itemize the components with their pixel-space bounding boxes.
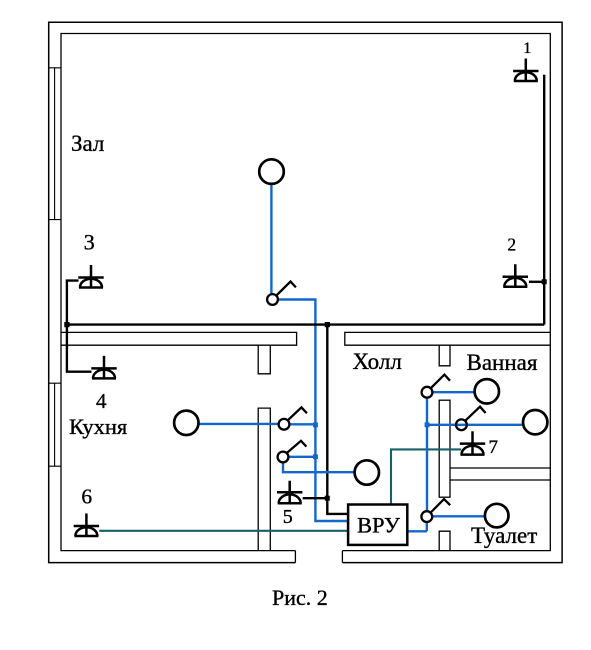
svg-text:Туалет: Туалет	[471, 523, 537, 548]
bathroom/hall wall mid segment	[439, 400, 450, 497]
wire: hall switch to hall lamp	[283, 463, 355, 473]
junction dot F (hall switch riser, blue)	[313, 454, 318, 459]
wire: toilet switch to lamp	[433, 515, 486, 517]
junction dot C (socket5)	[325, 496, 330, 501]
wire: VRU to toilet riser	[407, 522, 427, 531]
svg-text:Холл: Холл	[353, 349, 402, 374]
svg-text:6: 6	[81, 484, 92, 508]
switch S-hall	[278, 441, 307, 463]
junction dot D (socket2)	[542, 279, 547, 284]
svg-text:1: 1	[523, 40, 531, 57]
wire: bathroom junction to lamp2 through switch2	[427, 424, 523, 426]
socket 7	[460, 431, 485, 454]
svg-text:Ванная: Ванная	[467, 350, 538, 375]
wire: bathroom riser down to toilet switch	[426, 398, 428, 512]
wire: bathroom switch1 to lamp1	[432, 391, 475, 393]
socket 2	[503, 264, 528, 287]
lamp hall	[355, 460, 379, 484]
wire: socket2 stub	[529, 281, 544, 283]
junction dot E (kitchen switch riser, blue)	[313, 422, 318, 427]
switch S-zal (living room)	[267, 282, 296, 305]
outer wall	[49, 22, 562, 562]
switch S-bath2	[456, 407, 486, 430]
svg-text:2: 2	[507, 235, 516, 255]
svg-text:7: 7	[489, 437, 499, 458]
wire: kitchen lamp to switch	[197, 423, 315, 426]
socket 5	[277, 481, 302, 504]
wire: socket main horizontal run	[67, 323, 544, 325]
interior wall: hall/living-room left segment	[61, 332, 297, 345]
svg-text:3: 3	[84, 230, 95, 255]
wire: socket5 stub	[303, 497, 328, 499]
inner wall line	[61, 34, 550, 551]
socket 6	[74, 514, 99, 537]
bathroom bottom wall	[450, 468, 550, 480]
svg-text:5: 5	[283, 506, 293, 528]
lamp toilet	[485, 504, 509, 528]
svg-text:Зал: Зал	[71, 131, 104, 156]
svg-text:Кухня: Кухня	[69, 414, 127, 439]
window W1 living room	[49, 68, 61, 220]
window W2 kitchen	[49, 383, 61, 466]
wire: socket7 line to VRU top	[391, 449, 461, 504]
wire: socket6 line to VRU (teal net)	[99, 530, 348, 532]
wire: socket1 drop (black net)	[543, 75, 545, 325]
kitchen/hall wall upper jamb	[258, 345, 270, 374]
svg-text:Рис. 2: Рис. 2	[272, 585, 328, 610]
junction dot G (bathroom riser, blue)	[425, 422, 430, 427]
switch S-bath1	[422, 375, 450, 398]
bathroom/hall wall upper jamb	[439, 345, 450, 366]
junction dot A (sockets 3/4 riser)	[64, 322, 69, 327]
toilet/hall wall lower jamb	[439, 531, 450, 550]
wire: living room lamp to switch (blue net)	[270, 183, 272, 296]
socket 4	[91, 356, 116, 379]
wire: living room switch to riser and down to VRU	[278, 300, 348, 522]
switch S-kitchen	[279, 407, 307, 429]
kitchen/hall wall lower segment	[258, 408, 270, 550]
socket 1	[513, 59, 538, 82]
switch S-toilet	[421, 499, 450, 522]
svg-text:ВРУ: ВРУ	[357, 512, 400, 537]
wire: sockets 3 and 4 riser	[67, 281, 92, 372]
junction dot B (trunk top)	[325, 322, 330, 327]
svg-text:4: 4	[96, 389, 107, 413]
entrance door jamb right	[341, 551, 343, 563]
interior wall: hall/living-room right segment	[345, 332, 551, 345]
lamp bathroom 1	[475, 379, 499, 403]
lamp bathroom 2	[523, 410, 547, 434]
wire: socket trunk to VRU	[327, 325, 348, 514]
entrance door jamb left	[294, 551, 296, 563]
wire: hall switch stub	[289, 456, 316, 458]
lamp kitchen	[174, 411, 198, 435]
socket 3	[78, 265, 103, 288]
lamp living room	[259, 159, 284, 184]
VRU box U1	[348, 505, 407, 545]
